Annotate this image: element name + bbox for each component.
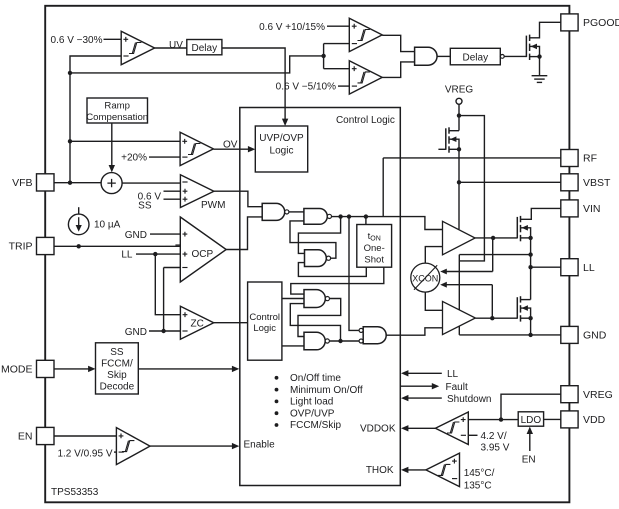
svg-text:Minimum On/Off: Minimum On/Off <box>290 385 363 396</box>
wire to cmpH - input <box>324 43 350 45</box>
current source 10uA <box>68 214 89 235</box>
arrowhead Q2 bulk arrow <box>522 305 528 311</box>
wire OV to UVP/OVP logic <box>213 148 251 150</box>
svg-text:0.6 V −30%: 0.6 V −30% <box>51 35 103 46</box>
comparator comparator OV (+20%) <box>180 132 213 165</box>
svg-text:Shot: Shot <box>364 255 384 266</box>
arrowhead current source arrow <box>76 225 82 232</box>
node VFB node C <box>68 181 72 185</box>
node window comparator feed junction <box>321 54 325 58</box>
wire 0.6V to PWM + <box>164 190 181 192</box>
node Q-PGOOD source junction <box>537 54 541 58</box>
comparator comparator VDDOK (4.2V/3.95V) <box>435 412 468 445</box>
wire Q1 drain to VIN pin <box>521 208 561 219</box>
svg-text:4.2 V/: 4.2 V/ <box>481 431 507 442</box>
wire LS driver gnd stub <box>458 326 460 335</box>
arrowhead into control logic (mode) <box>232 366 239 372</box>
arrowhead Q-BOOT bulk arrow <box>450 136 456 142</box>
node Q1 source node <box>528 236 532 240</box>
and gate U6 (low-side enable, inverted inputs) <box>363 327 386 344</box>
svg-text:Skip: Skip <box>107 370 127 381</box>
pin VREG <box>561 386 578 403</box>
wire VREG terminal down <box>458 104 460 130</box>
block LDO <box>518 412 543 426</box>
wire GND to ZC - <box>149 330 180 332</box>
wire VREG rail to drivers <box>459 116 484 261</box>
svg-text:One-: One- <box>364 243 385 254</box>
wire EN to LDO <box>529 431 531 452</box>
wire SS to PWM + <box>164 198 181 200</box>
svg-text:PWM: PWM <box>201 200 225 211</box>
svg-text:Logic: Logic <box>253 323 276 334</box>
node bootstrap node <box>528 252 532 256</box>
svg-text:THOK: THOK <box>366 465 394 476</box>
block Ramp Compensation <box>87 98 148 123</box>
wire ramp to summer <box>111 123 113 169</box>
node Q2 source node <box>528 316 532 320</box>
wire LDO to VREG pin <box>501 394 561 419</box>
svg-text:VREG: VREG <box>583 389 613 401</box>
wire OCP - to GND net riser <box>163 268 165 332</box>
arrowhead into decode <box>88 366 95 372</box>
svg-text:TPS53353: TPS53353 <box>51 487 99 498</box>
wire AND to Delay2 <box>437 55 450 57</box>
plus sign ZC + <box>183 312 188 317</box>
wire Q-BOOT source <box>449 148 459 150</box>
svg-text:Fault: Fault <box>446 382 468 393</box>
minus sign OCP -1 <box>175 244 180 246</box>
wire U2 out to LS AND input <box>349 217 359 331</box>
wire control logic to U5 input B <box>282 345 304 347</box>
wire VFB sense vertical to UV - input <box>70 56 121 183</box>
arrowhead into UVP/OVP top <box>282 119 288 126</box>
node LL branch node <box>153 252 157 256</box>
wire Q-PGOOD drain to PGOOD pin <box>530 22 561 38</box>
minus sign cmpL - <box>352 85 357 87</box>
svg-text:+20%: +20% <box>121 153 147 164</box>
svg-text:LL: LL <box>583 262 595 274</box>
svg-text:OCP: OCP <box>192 249 214 260</box>
minus sign OV - <box>182 156 187 158</box>
node HS gate node <box>491 236 495 240</box>
svg-text:Compensation: Compensation <box>86 112 148 123</box>
summing junction <box>101 173 122 194</box>
wire decode to control logic <box>138 368 235 370</box>
wire U4 out to U5 input A <box>298 299 341 337</box>
wire Fault signal <box>400 385 433 387</box>
svg-text:VFB: VFB <box>12 177 32 189</box>
bullet item Light load <box>275 400 279 404</box>
wire Q2 bulk <box>521 308 531 318</box>
wire U5 output to LS AND <box>330 340 360 342</box>
wire MODE to decode <box>54 368 92 370</box>
hysteresis symbol EN <box>122 441 134 452</box>
pin RF <box>561 150 578 167</box>
transistor Q2 (low-side) <box>517 296 520 321</box>
wire Q-PGOOD bulk <box>530 46 540 56</box>
svg-text:TRIP: TRIP <box>9 241 33 253</box>
node Q-BOOT source node <box>457 147 461 151</box>
inverter bubble on Delay2 output <box>500 55 504 59</box>
wire EN comparator to Enable <box>150 445 235 447</box>
node GND line node <box>528 333 532 337</box>
wire VBST rail to HS driver <box>458 149 460 229</box>
wire U5 out to U4 input C <box>290 304 340 341</box>
wire EN comparator - input <box>114 451 116 453</box>
node VFB node B <box>68 139 72 143</box>
pin EN <box>37 427 55 444</box>
svg-text:Enable: Enable <box>244 439 276 450</box>
node VFB node A <box>68 71 72 75</box>
comparator comparator PGOOD high (0.6V+10/15%) <box>349 18 382 51</box>
node U2 out node 3 <box>364 214 368 218</box>
wire OV - input <box>149 156 180 158</box>
arrowhead into summer <box>109 165 115 172</box>
svg-text:GND: GND <box>583 330 607 342</box>
pin VDD <box>561 411 578 428</box>
wire power GND line to GND pin <box>459 334 561 336</box>
wire U3 out to U2 input B <box>290 221 336 258</box>
wire summer to PWM - <box>122 182 180 184</box>
minus sign UV - <box>123 55 128 57</box>
svg-text:1.2 V/0.95 V: 1.2 V/0.95 V <box>57 448 112 459</box>
hysteresis symbol UV <box>129 43 141 54</box>
wire Shutdown signal <box>405 397 442 399</box>
wire VFB pin to summer <box>54 182 101 184</box>
pin VIN <box>561 200 578 217</box>
wire LS gate sense to XCON <box>444 284 493 286</box>
node U2 out node 2 <box>347 214 351 218</box>
node VBST node <box>457 180 461 184</box>
svg-text:0.6 V −5/10%: 0.6 V −5/10% <box>276 82 336 93</box>
svg-text:Delay: Delay <box>463 52 489 63</box>
arrowhead VDDOK into control logic <box>401 425 408 431</box>
block Control Logic (outer) <box>240 108 400 486</box>
wire control logic to U4 input B <box>282 298 304 300</box>
wire UV comparator + input <box>104 38 122 40</box>
svg-text:Ramp: Ramp <box>104 100 130 111</box>
plus sign PWM +2 <box>183 197 188 202</box>
nand gate U3 (PWM latch B) <box>305 250 327 267</box>
svg-text:Decode: Decode <box>100 382 135 393</box>
pin PGOOD <box>561 14 578 31</box>
comparator comparator ZC <box>180 306 213 339</box>
XCON block (cross-conduction protection) <box>411 263 440 292</box>
wire current source top stub <box>78 207 80 214</box>
pin VBST <box>561 174 578 191</box>
wire LL to ZC + <box>155 254 180 315</box>
node LL branch node <box>528 265 532 269</box>
wire cmp +10/15% plus input <box>327 25 349 27</box>
arrowhead Q1 bulk arrow <box>522 225 528 231</box>
wire U2 output to HS driver <box>332 217 443 230</box>
svg-text:ZC: ZC <box>191 319 204 330</box>
svg-text:Light load: Light load <box>290 397 333 408</box>
svg-text:LL: LL <box>447 369 459 380</box>
arrowhead Fault out <box>432 383 439 389</box>
transistor Q-BOOT (bootstrap switch) <box>446 127 449 152</box>
hysteresis symbol THOK <box>438 464 450 475</box>
svg-text:LDO: LDO <box>521 415 542 426</box>
plus sign cmpL + <box>352 66 357 71</box>
block SS FCCM/Skip Decode <box>96 343 139 394</box>
wire XCON bottom to LS driver <box>425 292 442 310</box>
comparator comparator OCP <box>180 217 226 282</box>
plus sign cmpH + <box>352 24 357 29</box>
arrowhead LL into control logic <box>401 370 408 376</box>
comparator comparator PGOOD low (0.6V-5/10%) <box>349 61 382 94</box>
wire LS driver output to Q2 gate <box>475 317 517 319</box>
wire cmpH output to AND <box>382 35 414 51</box>
hysteresis symbol cmpL <box>358 72 370 83</box>
wire GND to OCP + <box>150 233 180 235</box>
hysteresis symbol cmpH <box>358 30 370 41</box>
wire U2 out to one-shot <box>365 217 367 225</box>
wire Q-BOOT drain <box>449 130 459 132</box>
wire XCON lower riser <box>491 285 493 319</box>
wire RF line <box>383 157 561 159</box>
node TRIP node <box>77 244 81 248</box>
wire UV to Delay <box>155 47 187 49</box>
plus sign OV + <box>182 139 187 144</box>
hysteresis symbol VDDOK <box>447 422 459 433</box>
svg-text:VIN: VIN <box>583 203 601 215</box>
wire Q2 source to GND line <box>530 318 532 335</box>
wire cmp -5/10% minus input <box>338 85 349 87</box>
transistor Q1 (high-side) <box>517 216 520 241</box>
comparator comparator EN (1.2V/0.95V) <box>116 428 150 465</box>
arrowhead Shutdown into control logic <box>401 395 408 401</box>
wire Q-BOOT bulk <box>449 139 459 149</box>
pin MODE <box>37 360 55 377</box>
wire EN pin to EN comparator <box>54 435 116 437</box>
plus sign OCP +2 <box>183 252 188 257</box>
wire VDD to VDDOK + <box>468 419 518 421</box>
wire VFB feed to window comparators <box>70 56 324 73</box>
wire HS gate sense to XCON <box>444 271 493 273</box>
wire Q2 source <box>521 317 531 319</box>
wire HS driver output to Q1 gate <box>475 237 517 239</box>
pin TRIP <box>37 237 55 254</box>
svg-text:VREG: VREG <box>445 85 474 96</box>
delay block Delay1 <box>187 40 222 55</box>
wire U2 out to U3 input A <box>298 217 340 254</box>
wire U1 out to U2 <box>289 211 304 213</box>
svg-text:LL: LL <box>121 250 133 261</box>
wire U6 output to LS driver <box>386 328 442 335</box>
svg-text:135°C: 135°C <box>464 481 492 492</box>
plus sign OCP +1 <box>183 232 188 237</box>
svg-text:SS: SS <box>138 201 152 212</box>
VREG terminal <box>456 98 462 104</box>
wire OCP output to NAND1 <box>226 217 262 250</box>
block UVP/OVP Logic <box>255 126 307 172</box>
wire LL signal <box>405 372 442 374</box>
wire TRIP to OCP <box>54 245 180 247</box>
pin VFB <box>37 174 55 191</box>
wire ZC output to control logic <box>214 322 248 324</box>
plus sign UV + <box>123 37 128 42</box>
comparator comparator THOK (145C/135C) <box>426 453 460 487</box>
svg-text:FCCM/: FCCM/ <box>101 359 133 370</box>
wire cmpL output to AND <box>382 62 414 78</box>
node U5 out node <box>338 339 342 343</box>
minus sign VDDOK - <box>461 434 466 436</box>
wire PWM output to NAND1 <box>214 191 262 207</box>
minus sign OCP -2 <box>182 267 187 269</box>
minus sign cmpH - <box>352 43 357 45</box>
svg-text:Shutdown: Shutdown <box>447 394 491 405</box>
plus sign EN + <box>119 434 124 439</box>
svg-text:VDD: VDD <box>583 414 606 426</box>
svg-text:OVP/UVP: OVP/UVP <box>290 408 335 419</box>
wire THOK output <box>405 469 426 471</box>
svg-text:0.6 V +10/15%: 0.6 V +10/15% <box>259 22 325 33</box>
hysteresis symbol OV <box>188 144 200 155</box>
svg-text:VBST: VBST <box>583 177 611 189</box>
driver U-LS (low-side gate driver) <box>443 301 476 334</box>
wire Q-BOOT gate stub <box>438 148 445 150</box>
node VREG branch node <box>457 113 461 117</box>
svg-text:145°C/: 145°C/ <box>464 468 495 479</box>
svg-text:MODE: MODE <box>1 364 33 376</box>
wire XCON upper riser <box>492 238 494 272</box>
svg-text:GND: GND <box>125 327 147 338</box>
nand gate U5 (skip latch B) <box>304 332 325 350</box>
node U2 out node 1 <box>338 214 342 218</box>
wire XCON top to HS driver <box>425 247 442 264</box>
wire Q2 drain <box>521 299 531 301</box>
wire LL line <box>531 266 561 268</box>
wire VFB to OV comparator + <box>70 140 180 142</box>
svg-text:Delay: Delay <box>192 43 218 54</box>
arrowhead into control logic (enable) <box>232 443 239 449</box>
svg-text:UVP/OVP: UVP/OVP <box>259 133 304 144</box>
wire one-shot out1 to U3 input B <box>298 263 366 277</box>
wire Delay1 to UVP/OVP logic <box>222 48 285 122</box>
wire rail to LS driver top <box>458 255 460 310</box>
delay block Delay2 <box>450 48 500 65</box>
comparator comparator PWM <box>180 175 214 208</box>
svg-text:Control: Control <box>249 312 280 323</box>
wire Q1 bulk <box>521 228 531 238</box>
wire VDDOK output <box>405 427 435 429</box>
wire RF riser <box>382 158 384 217</box>
pin LL <box>561 259 578 276</box>
wire LL to OCP + <box>136 253 180 255</box>
arrowhead into XCON upper <box>440 269 447 275</box>
svg-text:XCON: XCON <box>412 273 438 283</box>
wire Q-PGOOD source to ground <box>539 57 541 76</box>
plus sign THOK + <box>452 459 457 464</box>
wire bootstrap to switch node <box>459 254 530 256</box>
svg-text:SS: SS <box>110 347 124 358</box>
svg-text:EN: EN <box>522 454 536 465</box>
wire VBST line <box>459 181 561 183</box>
node LS gate node <box>490 316 494 320</box>
bullet item Minimum On/Off <box>275 388 279 392</box>
plus sign VDDOK + <box>461 417 466 422</box>
svg-text:10 µA: 10 µA <box>94 220 121 231</box>
arrowhead THOK into control logic <box>401 467 408 473</box>
minus sign PWM - <box>182 181 187 183</box>
wire Delay2 to PGOOD FET gate <box>504 55 526 57</box>
wire OCP lower - input <box>164 267 181 269</box>
svg-text:Control Logic: Control Logic <box>336 115 395 126</box>
bullet item FCCM/Skip <box>275 423 279 427</box>
transistor Q-PGOOD (open-drain pulldown) <box>526 35 529 60</box>
AND gate U-PG (PGOOD qualifier) <box>415 47 437 65</box>
arrowhead Q-PGOOD bulk arrow <box>531 44 537 50</box>
svg-text:PGOOD: PGOOD <box>583 17 619 29</box>
svg-text:On/Off time: On/Off time <box>290 373 341 384</box>
wire switch node vertical <box>530 238 532 300</box>
svg-text:GND: GND <box>125 230 147 241</box>
svg-text:EN: EN <box>18 431 33 443</box>
arrowhead into XCON lower <box>440 282 447 288</box>
wire Q-PGOOD source <box>530 56 540 58</box>
svg-text:FCCM/Skip: FCCM/Skip <box>290 420 342 431</box>
comparator comparator UV (0.6V-30%) <box>121 31 154 64</box>
arrowhead EN into LDO <box>527 427 533 434</box>
wire window comparator input riser <box>323 44 325 69</box>
svg-text:RF: RF <box>583 153 597 165</box>
ground <box>532 76 548 83</box>
plus sign PWM +1 <box>183 189 188 194</box>
minus sign EN - <box>119 451 124 453</box>
node GND/ZC node <box>161 329 165 333</box>
nand gate U1 (PWM set) <box>262 203 285 220</box>
driver U-HS (high-side gate driver) <box>443 221 476 255</box>
wire one-shot out2 to U4 input A <box>291 267 384 294</box>
nand gate U4 (skip latch A) <box>304 290 325 308</box>
minus sign THOK - <box>452 478 457 480</box>
wire LDO to VDD pin <box>544 418 561 420</box>
nand gate U2 (PWM latch A) <box>304 209 327 225</box>
node LDO output node <box>499 417 503 421</box>
svg-text:VDDOK: VDDOK <box>360 424 396 435</box>
svg-text:3.95 V: 3.95 V <box>481 443 510 454</box>
bullet item On/Off time <box>275 376 279 380</box>
block tON One-Shot <box>357 225 392 268</box>
wire VDDOK - stub <box>468 434 477 436</box>
arrowhead into UVP/OVP left <box>248 146 255 152</box>
svg-text:Logic: Logic <box>270 146 294 157</box>
wire Q1 source <box>521 237 531 239</box>
bullet item OVP/UVP <box>275 411 279 415</box>
minus sign ZC - <box>182 330 187 332</box>
svg-text:UV: UV <box>169 40 183 51</box>
pin GND <box>561 326 578 343</box>
block Control Logic (inner) <box>248 282 282 360</box>
wire to cmpL + input <box>324 68 350 70</box>
